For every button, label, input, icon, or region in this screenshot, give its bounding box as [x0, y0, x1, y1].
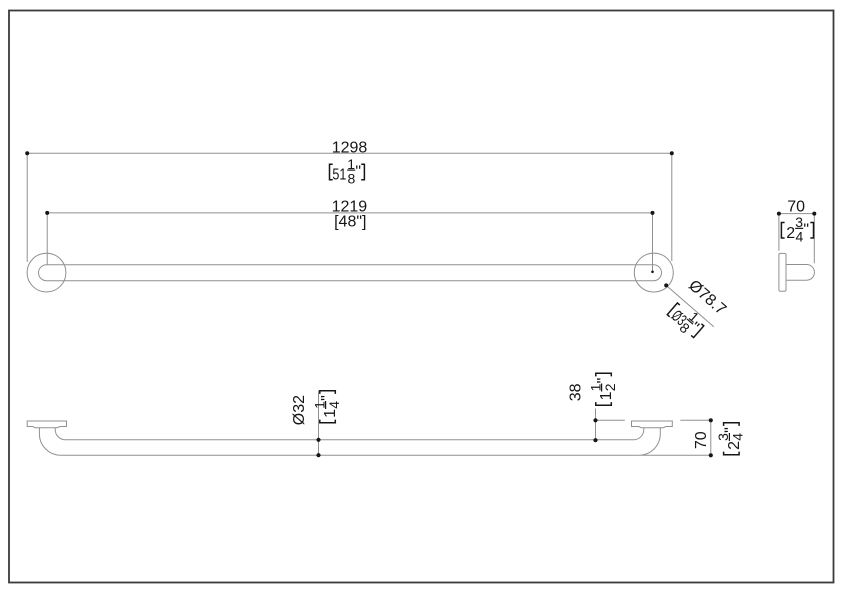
bottom view: bar top line — [66, 439, 634, 441]
svg-text:": " — [595, 378, 612, 384]
dimension dot 70 bottom top — [709, 418, 713, 422]
dimension line 1219 — [47, 212, 652, 214]
extension line 1298 right — [671, 153, 673, 261]
dimension dot 38 top — [593, 418, 597, 422]
svg-text:Ø32: Ø32 — [291, 395, 308, 425]
svg-text:8: 8 — [348, 170, 356, 186]
extension line 70 right — [813, 214, 815, 264]
bottom view: right arm inner curve — [633, 428, 643, 440]
extension line bar bottom (bottom view) — [641, 454, 711, 456]
dimension dot 1298 right — [670, 151, 674, 155]
svg-text:4: 4 — [326, 401, 342, 409]
dimension dot 38 bottom — [593, 438, 597, 442]
svg-text:": " — [803, 222, 809, 239]
dimension text [51 1/8"] — [330, 156, 365, 186]
dimension line Ø32 vertical — [318, 391, 320, 456]
bottom view: bar bottom line — [61, 454, 640, 456]
leader text [Ø3 1/8"] — [663, 297, 709, 343]
dimension dot 1298 left — [25, 151, 29, 155]
dimension line 70 (side view) — [779, 213, 814, 215]
bottom view: left arm inner curve — [55, 428, 65, 440]
dimension line 38 vertical — [595, 409, 597, 441]
svg-text:70: 70 — [787, 198, 805, 215]
dimension dot 70 side left — [777, 212, 781, 216]
bottom view: right flange disc profile — [632, 421, 673, 428]
svg-text:2: 2 — [726, 441, 743, 450]
extension line 1219 left — [46, 213, 48, 265]
svg-text:1: 1 — [322, 409, 339, 418]
wall reference line left segment — [596, 419, 625, 421]
extension line 70 left — [778, 214, 780, 251]
dimension dot 1219 right — [651, 211, 655, 215]
wall reference line right segment — [680, 419, 711, 421]
leader line Ø78.7 — [666, 285, 714, 326]
bottom view: right arm outer curve — [639, 428, 660, 455]
side view: bar stub with rounded end — [786, 265, 814, 281]
svg-text:": " — [723, 427, 740, 433]
svg-text:70: 70 — [693, 431, 710, 449]
dimension text 70 (bottom view, rotated) — [693, 431, 710, 449]
dimension line 1298 — [27, 152, 672, 154]
dimension dot Ø32 top — [316, 438, 320, 442]
dimension line 70 vertical (bottom view) — [710, 420, 712, 455]
top view: left flange circle — [27, 253, 66, 292]
extension line 1298 left — [26, 153, 28, 262]
dimension text [1 1/4"] (rotated) — [311, 391, 341, 423]
svg-text:2: 2 — [602, 383, 618, 391]
dimension text [2 3/4"] (side view) — [781, 214, 813, 244]
dimension dot 1219 left — [45, 211, 49, 215]
svg-text:2: 2 — [786, 225, 795, 242]
svg-text:1298: 1298 — [332, 139, 368, 156]
dimension text Ø32 (rotated) — [291, 395, 308, 425]
bottom view: left flange disc profile — [27, 421, 66, 428]
top view: grab bar tube outline — [39, 265, 662, 281]
dimension dot 70 bottom bottom — [709, 453, 713, 457]
svg-text:": " — [319, 395, 336, 401]
svg-text:4: 4 — [730, 433, 746, 441]
dimension text 38 (rotated) — [568, 383, 585, 401]
top view: right flange circle — [634, 253, 673, 292]
svg-text:1: 1 — [598, 391, 615, 400]
leader dot Ø78.7 — [664, 283, 668, 287]
svg-text:51: 51 — [332, 167, 346, 184]
svg-text:": " — [355, 163, 361, 180]
leader text Ø78.7 — [685, 277, 729, 318]
bottom view: left arm outer curve — [39, 428, 60, 455]
end dot of 1219 extension at cap centre — [651, 271, 654, 274]
extension line 1219 right — [652, 213, 654, 272]
svg-text:4: 4 — [796, 229, 804, 245]
dimension text [1 1/2"] (rotated) — [587, 373, 617, 405]
side view: flange profile rectangle — [779, 253, 786, 291]
dimension dot 70 side right — [812, 212, 816, 216]
svg-text:[48"]: [48"] — [334, 213, 366, 230]
svg-text:38: 38 — [568, 383, 585, 401]
dimension text [2 3/4"] (bottom view, rotated) — [715, 423, 745, 455]
dimension dot Ø32 bottom — [316, 453, 320, 457]
